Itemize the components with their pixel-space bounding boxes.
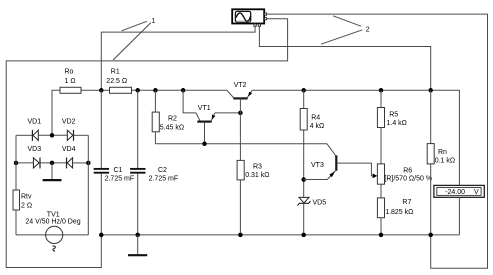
svg-text:C2: C2 bbox=[158, 167, 167, 174]
diode VD1 bbox=[16, 119, 67, 141]
svg-text:2: 2 bbox=[366, 27, 370, 34]
node VT1 base bbox=[202, 142, 207, 147]
svg-text:R6: R6 bbox=[403, 168, 412, 175]
svg-text:R1: R1 bbox=[111, 69, 120, 76]
wire scope bottom-right terminal down to y47 right to x431 down to rail bbox=[259, 26, 430, 90]
svg-text:VD1: VD1 bbox=[28, 119, 42, 126]
svg-text:2.725 mF: 2.725 mF bbox=[105, 176, 135, 183]
diode VD2 bbox=[62, 119, 88, 141]
resistor R7 bbox=[377, 198, 413, 235]
wire Ro right to node bbox=[81, 89, 110, 91]
wire bottom rail bbox=[101, 234, 459, 236]
svg-text:1: 1 bbox=[152, 18, 156, 25]
node bottom C1/loop bbox=[99, 233, 104, 238]
transistor VT1 bbox=[183, 90, 240, 144]
svg-text:4 kΩ: 4 kΩ bbox=[310, 123, 325, 130]
svg-text:R7: R7 bbox=[402, 199, 411, 206]
wire VT3 emitter horizontal bbox=[304, 179, 328, 181]
svg-text:[R]/570 Ω/50 %: [R]/570 Ω/50 % bbox=[384, 176, 432, 183]
resistor R5 bbox=[377, 90, 407, 164]
oscilloscope XSC1 body bbox=[232, 9, 266, 26]
transistor VT2 bbox=[227, 82, 252, 160]
node main left bbox=[99, 88, 104, 93]
svg-text:0.31 kΩ: 0.31 kΩ bbox=[245, 172, 269, 179]
node bottom VD5 bbox=[301, 233, 306, 238]
node bottom R7 bbox=[379, 233, 384, 238]
svg-text:-24.00: -24.00 bbox=[445, 189, 465, 196]
resistor R3 bbox=[237, 160, 269, 235]
node R5 top bbox=[379, 88, 384, 93]
node bridge bottom right bbox=[86, 161, 91, 166]
svg-text:2 Ω: 2 Ω bbox=[21, 203, 32, 210]
node VT3 emitter bbox=[301, 177, 306, 182]
resistor Rtv bbox=[13, 190, 32, 235]
svg-text:R4: R4 bbox=[311, 114, 320, 121]
capacitor C1 bbox=[94, 90, 134, 235]
ground GND2 at bottom rail bbox=[128, 235, 147, 255]
wire Ro left to bridge top node bbox=[52, 90, 60, 135]
wire bridge left column bbox=[15, 135, 17, 190]
voltmeter U bbox=[434, 185, 484, 197]
node R4 top bbox=[301, 88, 306, 93]
callout leader 1 bbox=[113, 18, 155, 60]
callout leader 2 bbox=[321, 16, 370, 44]
node Rn top bbox=[428, 88, 433, 93]
potentiometer R6 bbox=[377, 164, 432, 198]
svg-text:0.1 kΩ: 0.1 kΩ bbox=[435, 158, 455, 165]
svg-text:5.45 kΩ: 5.45 kΩ bbox=[160, 124, 184, 131]
wire main rail R1 right to VT2 collector bbox=[132, 89, 227, 91]
transistor VT3 bbox=[311, 144, 377, 180]
node bridge top center bbox=[50, 133, 55, 138]
svg-text:VD5: VD5 bbox=[313, 200, 327, 207]
node bottom Rn bbox=[428, 233, 433, 238]
resistor R2 bbox=[152, 90, 184, 144]
svg-text:V: V bbox=[474, 189, 479, 196]
svg-text:VT2: VT2 bbox=[234, 82, 247, 89]
svg-text:VD2: VD2 bbox=[62, 119, 76, 126]
svg-text:VD3: VD3 bbox=[28, 146, 42, 153]
diode VD3 bbox=[16, 146, 67, 168]
wire bridge top node up to Ro (drawn with Ro) ; ground GND1 below bridge bbox=[43, 163, 62, 180]
node VT1 collector top bbox=[181, 88, 186, 93]
wire scope terminal B right, down at x287.6, left at y60, left border down, bottom, up to rail bbox=[6, 19, 287, 268]
wire voltmeter bottom to rail bbox=[458, 197, 460, 235]
diode VD4 bbox=[62, 146, 88, 168]
resistor Ro bbox=[60, 69, 81, 94]
resistor R1 bbox=[106, 69, 131, 94]
node R2 top bbox=[153, 88, 158, 93]
resistor Rn bbox=[427, 90, 455, 235]
svg-text:TV1: TV1 bbox=[47, 211, 60, 218]
svg-text:C1: C1 bbox=[114, 167, 123, 174]
svg-text:22.5 Ω: 22.5 Ω bbox=[106, 78, 127, 85]
svg-text:2.725 mF: 2.725 mF bbox=[149, 176, 179, 183]
svg-text:Ro: Ro bbox=[65, 69, 74, 76]
svg-text:Rn: Rn bbox=[438, 149, 447, 156]
node bridge bottom center bbox=[50, 161, 55, 166]
node bridge bottom left bbox=[14, 161, 19, 166]
zener diode VD5 bbox=[298, 197, 327, 235]
node bottom R3 bbox=[238, 233, 243, 238]
AC source TV1 bbox=[16, 211, 88, 251]
svg-text:1.825 kΩ: 1.825 kΩ bbox=[385, 209, 413, 216]
node C2 top bbox=[135, 88, 140, 93]
wire main rail VT2 emitter to right corner, down to voltmeter bbox=[252, 90, 459, 185]
svg-text:Rtv: Rtv bbox=[21, 194, 32, 201]
svg-text:R5: R5 bbox=[389, 111, 398, 118]
resistor R4 bbox=[300, 90, 324, 197]
capacitor C2 bbox=[130, 90, 178, 235]
wire R2 bottom to VT1 base to VT3 collector bbox=[155, 143, 327, 145]
svg-text:R3: R3 bbox=[253, 163, 262, 170]
wire scope bottom-left terminal down to y31.5 left to node column bbox=[101, 26, 255, 90]
svg-text:24 V/50 Hz/0 Deg: 24 V/50 Hz/0 Deg bbox=[25, 218, 80, 225]
node VT1 emitter / VT2 base bbox=[238, 111, 243, 116]
svg-text:VT3: VT3 bbox=[311, 162, 324, 169]
node bottom C2/ground bbox=[135, 233, 140, 238]
svg-text:1.4 kΩ: 1.4 kΩ bbox=[387, 120, 407, 127]
svg-text:R2: R2 bbox=[168, 116, 177, 123]
svg-text:1 Ω: 1 Ω bbox=[65, 78, 76, 85]
svg-text:VT1: VT1 bbox=[198, 105, 211, 112]
wire bridge right column bbox=[87, 135, 89, 235]
svg-text:VD4: VD4 bbox=[62, 146, 76, 153]
wire scope terminal A right to right border down to bottom rail bbox=[267, 14, 488, 268]
